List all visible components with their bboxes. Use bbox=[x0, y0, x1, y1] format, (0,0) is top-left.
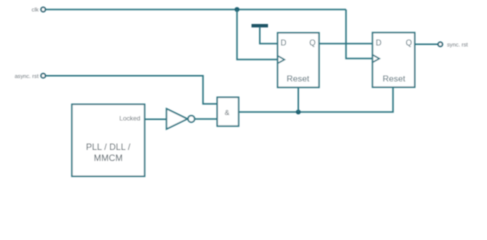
svg-text:MMCM: MMCM bbox=[94, 153, 123, 163]
svg-text:Q: Q bbox=[406, 39, 412, 48]
wire clk to FF2 clock pin bbox=[346, 10, 373, 59]
svg-text:D: D bbox=[281, 38, 287, 47]
svg-text:Reset: Reset bbox=[287, 74, 310, 84]
svg-text:clk: clk bbox=[32, 8, 39, 14]
svg-text:sync. rst: sync. rst bbox=[447, 43, 468, 49]
svg-text:Locked: Locked bbox=[119, 116, 140, 123]
wire async. rst to AND gate top input bbox=[46, 76, 218, 104]
wire clk horizontal main bbox=[46, 9, 346, 11]
wire PLL Locked output to inverter bbox=[145, 118, 167, 120]
wire U2 Q to sync. rst port bbox=[415, 43, 438, 45]
svg-text:D: D bbox=[376, 39, 382, 48]
wire AND output reset net bbox=[239, 87, 393, 112]
svg-text:Reset: Reset bbox=[383, 74, 406, 84]
flip-flop U2 (D flip-flop with Reset) bbox=[373, 33, 415, 88]
wire U1 Q to U2 D bbox=[319, 43, 373, 45]
block PLL / DLL / MMCM bbox=[72, 104, 145, 176]
inverter (NOT gate) bbox=[167, 109, 195, 129]
svg-text:PLL / DLL /: PLL / DLL / bbox=[86, 142, 131, 152]
flip-flop U1 (D flip-flop with Reset) bbox=[278, 33, 319, 88]
wire inverter output to AND gate bottom input bbox=[195, 118, 217, 120]
node async. rst input port bbox=[15, 74, 46, 80]
junction reset net bbox=[296, 110, 301, 115]
junction clk branch bbox=[235, 7, 240, 12]
power tie-high constant 1 to FF1 D bbox=[252, 24, 278, 44]
node sync. rst output port bbox=[438, 42, 468, 48]
wire clk to FF1 clock pin bbox=[237, 10, 278, 60]
svg-text:async. rst: async. rst bbox=[15, 74, 39, 80]
node clk input port bbox=[32, 7, 46, 13]
AND gate (&) bbox=[217, 97, 238, 126]
svg-text:&: & bbox=[225, 108, 230, 117]
svg-text:Q: Q bbox=[309, 38, 315, 47]
wire reset net to U1 Reset pin bbox=[297, 87, 299, 112]
